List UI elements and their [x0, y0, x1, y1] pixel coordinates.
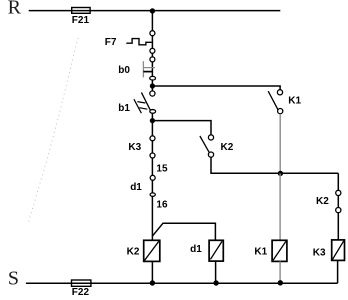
- wire d1 coil to bottom rail: [215, 261, 217, 283]
- fuse F22: [72, 280, 91, 286]
- contact K2 (right, closed): [336, 190, 341, 212]
- wire main vertical lower (through K3 and d1 contacts to K2 coil): [151, 113, 153, 240]
- wire main vertical through b0: [151, 59, 153, 91]
- svg-text:K2: K2: [127, 246, 140, 257]
- node junction d1 coil / rail: [213, 280, 218, 285]
- svg-text:d1: d1: [130, 182, 142, 193]
- contact K1 (NO): [268, 90, 283, 114]
- wire jog K2 coil to d1 coil: [152, 223, 215, 240]
- pin terminal F7 bottom: [150, 48, 155, 53]
- svg-text:b0: b0: [118, 65, 130, 76]
- contact K3 (main line): [150, 136, 155, 158]
- pushbutton b0 (NC): [143, 61, 155, 77]
- wire right branch down: [337, 173, 339, 240]
- svg-text:K2: K2: [221, 142, 234, 153]
- wire bottom rail S: [26, 282, 338, 284]
- relay coil K1: [272, 240, 287, 261]
- svg-text:K1: K1: [288, 96, 301, 107]
- fuse F21: [72, 8, 90, 14]
- wire main vertical upper: [151, 11, 153, 57]
- contact K2 (NO, middle): [200, 135, 214, 157]
- relay coil K3: [332, 240, 345, 261]
- scan fold artifact (dotted): [28, 38, 78, 224]
- svg-text:R: R: [8, 0, 22, 18]
- relay coil d1: [209, 240, 223, 261]
- svg-text:d1: d1: [190, 244, 202, 255]
- node junction top rail / main line: [150, 8, 155, 13]
- wire K2 coil to bottom rail: [151, 261, 153, 283]
- svg-text:K3: K3: [313, 247, 326, 258]
- svg-text:F21: F21: [72, 15, 90, 26]
- wire gray K1 coil branch: [279, 173, 281, 240]
- svg-text:K2: K2: [316, 196, 329, 207]
- wire gray K1 coil to bottom rail: [279, 261, 281, 283]
- svg-text:15: 15: [156, 163, 168, 174]
- wire gray K1 branch upper: [279, 114, 281, 174]
- wire branch to K1 contact: [152, 86, 280, 90]
- svg-text:K1: K1: [254, 246, 267, 257]
- pin terminal F7 top: [150, 31, 155, 36]
- node junction K1 coil / rail: [278, 280, 283, 285]
- contact d1 (timer, main line): [150, 175, 155, 196]
- svg-text:F7: F7: [105, 37, 117, 48]
- wire top rail R: [29, 10, 281, 12]
- svg-text:16: 16: [156, 200, 168, 211]
- node junction K2 coil / rail: [150, 280, 155, 285]
- node junction to K1 branch: [150, 83, 155, 88]
- svg-text:F22: F22: [72, 287, 90, 298]
- node junction to K2 branch: [150, 118, 155, 123]
- wire K3 coil to bottom rail: [337, 260, 339, 283]
- relay coil K2: [144, 240, 160, 261]
- pushbutton b1 (NO): [134, 91, 156, 113]
- svg-text:K3: K3: [128, 142, 141, 153]
- svg-text:b1: b1: [118, 103, 130, 114]
- pin terminal b0 top: [150, 57, 155, 62]
- wire K2 contact to right rail: [211, 157, 338, 173]
- wire branch to K2 contact: [152, 121, 211, 135]
- node junction K1 coil branch: [278, 171, 283, 176]
- svg-text:S: S: [8, 267, 19, 289]
- contact F7 (thermal trip symbol): [126, 39, 152, 45]
- pin terminal b0 bottom: [150, 76, 156, 80]
